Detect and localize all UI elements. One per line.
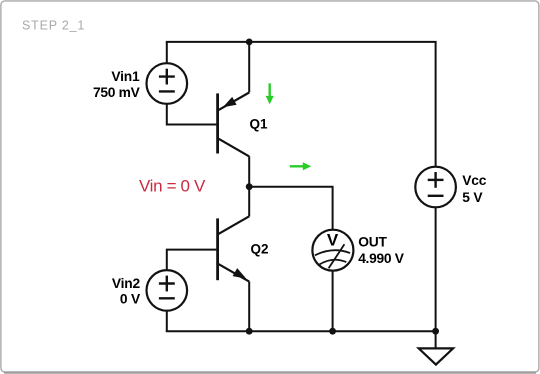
green current arrow right xyxy=(290,162,311,170)
svg-text:Vcc: Vcc xyxy=(462,173,486,188)
wire ground stub xyxy=(435,331,437,348)
transistor Q2 (NPN) xyxy=(218,216,250,281)
wire output node to meter xyxy=(249,187,332,230)
svg-text:Vin1: Vin1 xyxy=(111,69,140,84)
wire Vcc top xyxy=(435,42,437,167)
wire Vin2 bottom xyxy=(166,311,168,332)
svg-text:V: V xyxy=(327,230,339,249)
svg-text:Q2: Q2 xyxy=(251,242,269,257)
svg-text:750 mV: 750 mV xyxy=(93,85,141,100)
wire Vin2 top to Q2 base xyxy=(167,250,217,271)
voltage source Vcc xyxy=(415,167,456,208)
wire Q1 emitter vertical xyxy=(248,42,250,93)
svg-text:5 V: 5 V xyxy=(462,190,483,205)
wire Q2 collector to output node xyxy=(248,187,250,217)
svg-text:OUT: OUT xyxy=(358,234,387,249)
voltmeter OUT xyxy=(312,230,353,271)
wire top rail xyxy=(166,41,437,43)
voltage source Vin1 xyxy=(147,63,188,104)
node Q2 emitter junction xyxy=(246,328,253,335)
wire Vcc bottom xyxy=(435,207,437,331)
wire meter bottom xyxy=(332,271,334,331)
ground xyxy=(419,348,453,364)
svg-text:4.990 V: 4.990 V xyxy=(358,251,405,266)
wire Vin1 top xyxy=(166,42,168,64)
wire Q2 emitter to bottom rail xyxy=(248,282,250,332)
svg-text:Vin = 0 V: Vin = 0 V xyxy=(139,177,206,196)
green current arrow down xyxy=(266,83,274,104)
wire bottom rail xyxy=(166,330,436,332)
wire Q1 collector to output node xyxy=(248,156,250,186)
node meter junction xyxy=(329,328,336,335)
transistor Q1 (PNP) xyxy=(218,93,250,157)
node output junction xyxy=(246,183,253,190)
svg-text:Vin2: Vin2 xyxy=(112,276,141,291)
svg-text:0 V: 0 V xyxy=(120,291,141,306)
node top junction xyxy=(246,39,253,46)
node ground junction xyxy=(432,328,439,335)
voltage source Vin2 xyxy=(147,270,188,311)
svg-text:Q1: Q1 xyxy=(250,117,269,132)
svg-text:STEP 2_1: STEP 2_1 xyxy=(22,19,85,33)
wire Vin1 bottom to Q1 base xyxy=(167,104,217,125)
